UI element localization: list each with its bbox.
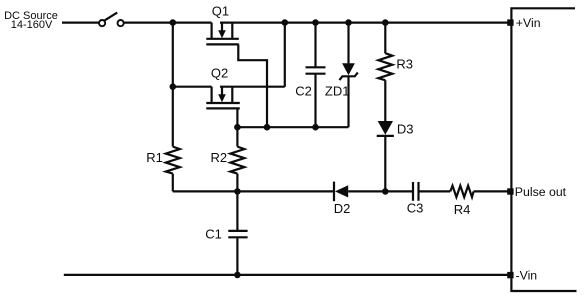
wire: node B to Q2 drain — [173, 86, 212, 88]
switch S1 — [99, 13, 124, 27]
svg-text:C3: C3 — [407, 200, 424, 215]
wire: Q2 gate lead — [236, 108, 238, 127]
terminal Pulse out — [507, 185, 566, 199]
node A (top rail / R1-Q2 branch) — [170, 19, 177, 26]
wire: D2 to D3 node — [348, 190, 413, 192]
label DC Source 14-160V — [4, 10, 58, 31]
node F (bus / C2 junction) — [312, 124, 319, 131]
resistor R4 — [450, 186, 473, 218]
wire: Q1 gate lead — [238, 44, 267, 127]
node J (pulse row / R2-C1 junction) — [234, 188, 241, 195]
node E (bus / Q1 gate junction) — [264, 124, 271, 131]
svg-text:C1: C1 — [205, 226, 222, 241]
wire: bottom rail — [64, 274, 508, 276]
zener diode ZD1 — [325, 23, 358, 128]
node L (bottom rail / C1 junction) — [234, 272, 241, 279]
wire: node A down to Q2 drain row — [172, 23, 174, 87]
node D (bus left junction) — [234, 124, 241, 131]
svg-text:Pulse out: Pulse out — [515, 185, 567, 199]
svg-text:+Vin: +Vin — [516, 16, 541, 30]
node G (top rail / C2 junction) — [312, 19, 319, 26]
wire: Q2 source to vertical riser — [220, 86, 285, 88]
svg-text:R2: R2 — [210, 150, 227, 165]
svg-text:R4: R4 — [454, 202, 471, 217]
node B (Q2 drain junction) — [170, 83, 177, 90]
wire: right output rail — [511, 8, 576, 291]
resistor R2 — [210, 127, 244, 191]
wire: riser from Q2 source up to top rail — [284, 23, 286, 87]
terminal +Vin — [507, 16, 540, 30]
svg-text:Q1: Q1 — [212, 3, 229, 18]
wire: source to switch — [62, 22, 99, 24]
svg-text:Q2: Q2 — [211, 66, 228, 81]
wire: pulse row left segment — [173, 190, 333, 192]
wire: Q1 source to +Vin rail — [220, 22, 508, 24]
svg-text:14-160V: 14-160V — [11, 19, 53, 31]
node I (top rail / R3 junction) — [382, 19, 389, 26]
node K (pulse row / D3 junction) — [382, 188, 389, 195]
svg-text:D3: D3 — [397, 122, 414, 137]
wire: gate bus — [237, 126, 348, 128]
svg-text:R1: R1 — [146, 150, 163, 165]
svg-text:ZD1: ZD1 — [325, 83, 350, 98]
capacitor C1 — [205, 191, 247, 275]
wire: R4 to pulse out terminal — [474, 190, 508, 192]
resistor R3 — [378, 23, 413, 122]
transistor Q2 — [206, 66, 240, 109]
capacitor C2 — [295, 23, 325, 128]
resistor R1 — [146, 87, 180, 192]
capacitor C3 — [407, 182, 424, 215]
wire: C3 to R4 — [419, 190, 451, 192]
terminal -Vin — [507, 268, 537, 282]
svg-text:-Vin: -Vin — [516, 268, 538, 282]
svg-text:D2: D2 — [334, 201, 351, 216]
wire: switch to Q1 drain — [124, 22, 212, 24]
svg-text:R3: R3 — [396, 57, 413, 72]
svg-text:C2: C2 — [295, 83, 312, 98]
node C (top rail riser junction) — [282, 19, 289, 26]
diode D2 — [334, 182, 351, 217]
node H (top rail / ZD1 junction) — [345, 19, 352, 26]
transistor Q1 — [206, 3, 239, 44]
diode D3 — [377, 121, 414, 191]
